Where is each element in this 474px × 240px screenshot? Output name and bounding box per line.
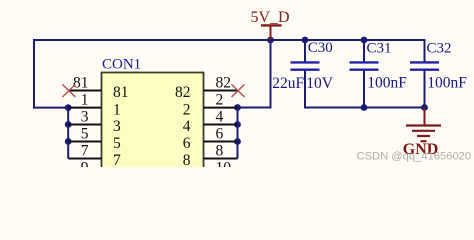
svg-text:82: 82 [216, 74, 232, 91]
svg-text:8: 8 [216, 142, 224, 159]
pin 7 (left) [68, 142, 121, 169]
capacitor C30 [272, 40, 334, 92]
junction: 5V rail taps [267, 37, 367, 44]
svg-text:C31: C31 [367, 41, 392, 57]
junction: left bus pins 1,3,5 [65, 104, 72, 145]
pin 2 (right) [183, 91, 238, 118]
svg-text:10V: 10V [306, 75, 334, 92]
svg-text:C30: C30 [308, 40, 333, 56]
svg-text:3: 3 [113, 118, 121, 135]
svg-text:100nF: 100nF [367, 75, 407, 92]
pin 9 (left, clipped) [81, 159, 89, 176]
svg-text:81: 81 [73, 74, 89, 91]
svg-text:10: 10 [216, 159, 232, 167]
pin 3 (left) [68, 108, 121, 135]
junction: right bus pins 2,4,6 [234, 104, 241, 145]
wire: 5V rail with left loop and C32 drop [34, 40, 425, 108]
wire: right even-pin bus jog to 5V rail [238, 39, 271, 159]
svg-text:3: 3 [81, 108, 89, 125]
wire: left odd-pin bus [67, 108, 69, 159]
capacitor C31 [350, 40, 408, 108]
svg-text:81: 81 [113, 84, 129, 101]
ground symbol GND [403, 108, 441, 159]
svg-text:5: 5 [81, 125, 89, 142]
pin 8 (right) [183, 142, 238, 169]
pin 81 (left, no-connect) [62, 74, 128, 101]
capacitor C32 [410, 41, 467, 108]
svg-text:6: 6 [183, 135, 191, 152]
svg-text:CON1: CON1 [102, 57, 141, 73]
svg-text:6: 6 [216, 125, 224, 142]
connector CON1 body [102, 57, 204, 173]
svg-text:4: 4 [216, 108, 224, 125]
svg-text:82: 82 [175, 84, 191, 101]
svg-text:CSDN @qq_41656020: CSDN @qq_41656020 [357, 151, 472, 163]
svg-text:9: 9 [81, 159, 89, 167]
svg-text:100nF: 100nF [427, 75, 467, 92]
svg-text:2: 2 [216, 91, 224, 108]
svg-text:C32: C32 [427, 41, 452, 57]
pin 82 (right, no-connect) [175, 74, 245, 101]
wire: bottom capacitor rail [305, 70, 425, 108]
svg-text:7: 7 [113, 152, 121, 167]
junction: bottom rail taps [361, 104, 428, 111]
power port 5V_D [251, 9, 290, 40]
pin 4 (right) [183, 108, 238, 135]
pin 10 (right, clipped) [216, 159, 232, 176]
svg-text:7: 7 [81, 142, 89, 159]
svg-text:1: 1 [81, 91, 89, 108]
svg-text:8: 8 [183, 152, 191, 167]
pin 1 (left) [68, 91, 121, 118]
pin 6 (right) [183, 125, 238, 152]
svg-text:5V_D: 5V_D [251, 9, 290, 26]
svg-text:1: 1 [113, 101, 121, 118]
svg-text:22uF: 22uF [272, 75, 304, 92]
pin 5 (left) [68, 125, 121, 152]
svg-text:2: 2 [183, 101, 191, 118]
svg-text:4: 4 [183, 118, 191, 135]
svg-text:5: 5 [113, 135, 121, 152]
